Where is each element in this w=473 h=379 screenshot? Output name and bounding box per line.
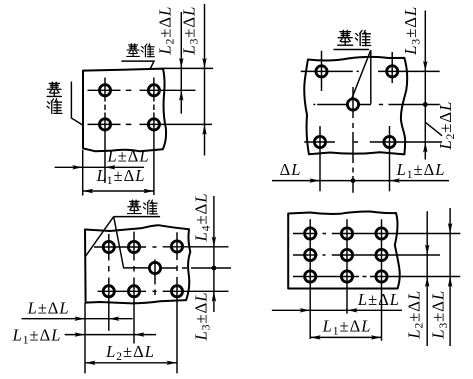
- arrow L left fig4: [347, 308, 358, 312]
- svg-text:L2±ΔL: L2±ΔL: [404, 290, 425, 340]
- dimension bottom line fig2: [272, 180, 449, 182]
- dimension L1 line fig3: [65, 334, 156, 336]
- svg-text:L1±ΔL: L1±ΔL: [12, 326, 62, 347]
- arrow L2 down: [179, 58, 183, 69]
- svg-text:L3±ΔL: L3±ΔL: [429, 290, 450, 340]
- dimension L3 vertical fig4: [449, 208, 451, 346]
- svg-text:ΔL: ΔL: [280, 160, 302, 179]
- svg-text:L1±ΔL: L1±ΔL: [322, 317, 372, 338]
- hole F2-BR: [384, 136, 395, 147]
- dimension L4 line: [213, 196, 215, 312]
- datum leader slant to hole: [352, 50, 371, 99]
- datum label fig3 (基准): [128, 200, 141, 213]
- datum leader top: [121, 61, 154, 69]
- arrow L2 leftend fig3: [85, 361, 96, 365]
- hole F2-TR: [387, 66, 398, 77]
- dimension L line: [55, 166, 144, 168]
- center line row1: [88, 89, 196, 91]
- center line row2 fig4: [293, 254, 440, 256]
- arrow L right fig4: [300, 308, 311, 312]
- datum leader branch to edge: [85, 217, 114, 257]
- center line col C: [352, 87, 354, 193]
- arrow bottom right-pointing: [310, 178, 321, 182]
- extension line col BR: [389, 126, 391, 191]
- plate 4 outline: [288, 211, 400, 288]
- svg-text:L±ΔL: L±ΔL: [357, 290, 400, 309]
- center line vert TR: [391, 52, 393, 83]
- hole F1-2 (top-right): [148, 85, 159, 96]
- arrow L1 right fig3: [75, 332, 86, 336]
- arrow L1 leftend fig4: [310, 335, 321, 339]
- hole F1-4 (bottom-right): [148, 119, 159, 130]
- arrow L3 down: [202, 58, 206, 69]
- hole F2-TL: [316, 66, 327, 77]
- center line col2: [133, 232, 135, 344]
- datum label (基准): [338, 30, 353, 45]
- node dot L4: [212, 266, 217, 271]
- center line row C: [313, 104, 439, 106]
- arrow L2 rightend fig3: [167, 361, 178, 365]
- dimension right vertical line: [424, 11, 426, 160]
- svg-text:L2±ΔL: L2±ΔL: [105, 342, 155, 363]
- dimension L3 line: [204, 4, 206, 156]
- arrow L2 up: [179, 90, 183, 101]
- svg-text:L3±ΔL: L3±ΔL: [179, 6, 200, 56]
- plate 1 outline: [83, 69, 166, 152]
- center line col1: [108, 234, 110, 331]
- hole F4-11: [305, 228, 316, 239]
- center line col2 fig4: [346, 219, 348, 314]
- arrow L3 up fig4: [448, 277, 452, 288]
- hole F4-23: [376, 249, 387, 260]
- center line vert TL: [321, 51, 323, 91]
- datum label left (基准 stacked): [47, 82, 61, 96]
- node dot on right dim: [423, 102, 428, 107]
- dimension L1 line: [83, 190, 154, 192]
- svg-text:L3±ΔL: L3±ΔL: [401, 6, 422, 56]
- extension line left edge: [82, 150, 84, 196]
- arrow L right: [72, 165, 83, 169]
- dimension L line fig4: [272, 309, 402, 311]
- dimension L2 vertical fig4: [426, 211, 428, 346]
- center line col2: [153, 78, 155, 196]
- arrow right-dim down: [423, 61, 427, 72]
- hole F2-C (datum hole): [347, 99, 358, 110]
- svg-text:L±ΔL: L±ΔL: [106, 147, 149, 166]
- svg-text:L1±ΔL: L1±ΔL: [396, 160, 446, 181]
- hole F3-B1: [103, 286, 114, 297]
- datum leader underline: [334, 49, 370, 51]
- svg-text:L2±ΔL: L2±ΔL: [436, 101, 457, 151]
- hole F3-B3: [171, 286, 182, 297]
- hole F2-BL: [314, 136, 325, 147]
- hole F4-32: [341, 271, 352, 282]
- datum label top (基准): [127, 44, 140, 57]
- hole F4-13: [376, 228, 387, 239]
- arrow right-dim up: [423, 142, 427, 153]
- extension line col BL: [319, 126, 321, 191]
- center line col3 fig4: [381, 219, 383, 341]
- dimension L line fig3: [22, 318, 133, 320]
- dimension L2 line fig3: [85, 362, 177, 364]
- center line col3: [176, 232, 178, 373]
- svg-text:L2±ΔL: L2±ΔL: [156, 6, 177, 56]
- hole F3-T2: [128, 241, 139, 252]
- center line row2: [88, 123, 213, 125]
- center line col middle: [154, 260, 156, 296]
- center line row1 fig4: [293, 233, 460, 235]
- center line row middle: [162, 267, 231, 269]
- node dot bottom center: [351, 178, 356, 183]
- svg-text:L1±ΔL: L1±ΔL: [96, 166, 146, 187]
- plate 2 outline: [304, 57, 407, 155]
- hole F4-31: [305, 271, 316, 282]
- extension line top edge: [163, 67, 213, 69]
- svg-text:L3±ΔL: L3±ΔL: [192, 292, 213, 342]
- hole F3-T3: [171, 241, 182, 252]
- datum leader left: [71, 82, 82, 126]
- arrow bottom left-pointing: [390, 178, 401, 182]
- svg-text:L±ΔL: L±ΔL: [27, 299, 70, 318]
- center line row3 fig4: [293, 276, 460, 278]
- arrow L3 up: [202, 124, 206, 134]
- center line row3: [304, 141, 442, 143]
- center line row1: [301, 70, 440, 72]
- arrow L1 rightend: [144, 189, 155, 193]
- plate 3 outline: [85, 225, 190, 303]
- center line col1: [104, 78, 106, 184]
- hole F4-22: [341, 249, 352, 260]
- arrow L3 down fig4: [448, 223, 452, 234]
- arrow L1 rightend fig4: [371, 335, 382, 339]
- arrow L1 leftend: [83, 189, 94, 193]
- arrow L2 down fig4: [425, 245, 429, 256]
- hole F4-33: [376, 271, 387, 282]
- dimension L2 line: [180, 12, 182, 114]
- center line row bottom: [98, 290, 229, 292]
- hole F4-12: [341, 228, 352, 239]
- arrow L4 up: [212, 291, 216, 302]
- dimension L1 line fig4: [310, 336, 381, 338]
- hole F3-M (middle): [149, 262, 160, 273]
- hole F3-B2: [128, 286, 139, 297]
- arrow L4 down: [212, 237, 216, 248]
- hole F4-21: [305, 249, 316, 260]
- datum leader branch to middle hole: [114, 217, 149, 268]
- hole F1-1 (top-left): [99, 85, 110, 96]
- svg-text:L4±ΔL: L4±ΔL: [192, 193, 213, 243]
- extension line left edge fig3: [84, 303, 86, 373]
- arrow L left fig3: [109, 317, 120, 321]
- hole F3-T1: [103, 241, 114, 252]
- leader L2 fig2: [426, 122, 443, 135]
- hole F1-3 (bottom-left): [99, 119, 110, 130]
- center line row top: [94, 246, 229, 248]
- datum leader vertical: [370, 50, 372, 104]
- arrow L left: [105, 165, 116, 169]
- datum leader underline fig3: [114, 216, 160, 218]
- arrow L right fig3: [75, 317, 86, 321]
- arrow L1 left fig3: [134, 332, 145, 336]
- center line col1 fig4: [309, 219, 311, 339]
- arrow L2 up fig4: [425, 277, 429, 288]
